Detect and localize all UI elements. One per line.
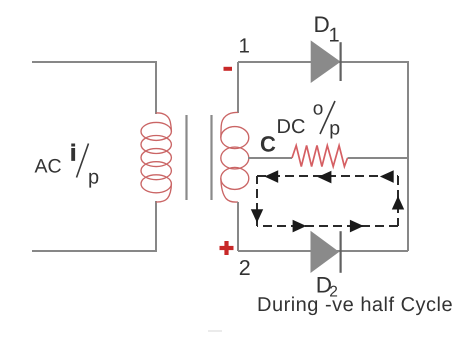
label D1: [314, 12, 340, 47]
current arrow bottom right: [350, 220, 364, 233]
current arrow top left: [264, 170, 278, 183]
label AC i/p: [35, 140, 100, 189]
svg-text:During -ve half Cycle: During -ve half Cycle: [257, 294, 453, 316]
svg-text:1: 1: [239, 35, 250, 58]
svg-text:p: p: [329, 118, 340, 140]
svg-text:p: p: [88, 167, 99, 189]
transformer core: [187, 115, 212, 200]
label DC o/p: [277, 99, 341, 140]
svg-text:1: 1: [329, 25, 340, 47]
current arrow top right: [380, 170, 394, 183]
dashed current path loop: [257, 176, 398, 226]
svg-text:C: C: [260, 132, 276, 157]
wire secondary bottom lead: [237, 202, 239, 251]
svg-text:o: o: [313, 99, 324, 120]
transformer secondary coil: [221, 112, 249, 202]
svg-text:i: i: [70, 140, 76, 166]
transformer primary coil: [141, 113, 171, 202]
polarity plus: [220, 241, 234, 255]
diode D2: [311, 231, 341, 273]
stray mark: [208, 330, 222, 332]
wire AC source loop: [32, 62, 156, 251]
svg-text:D: D: [314, 12, 330, 37]
current arrow right up: [392, 196, 404, 210]
svg-text:DC: DC: [277, 116, 306, 138]
resistor load: [292, 146, 348, 167]
svg-text:AC: AC: [35, 156, 62, 178]
wire right rail bottom: [407, 158, 409, 251]
wire center tap to load: [248, 157, 408, 159]
polarity minus: [224, 67, 233, 71]
current arrow bottom left: [293, 220, 307, 233]
wire secondary top lead: [237, 62, 239, 113]
svg-text:2: 2: [239, 256, 251, 280]
current arrow top middle: [318, 171, 332, 184]
current arrow left down: [251, 209, 263, 223]
wire bottom from node 2 through D2: [238, 250, 408, 252]
wire top from node 1 through D1 to right rail: [238, 62, 408, 158]
diode D1: [311, 41, 340, 82]
label D2: [316, 273, 338, 301]
